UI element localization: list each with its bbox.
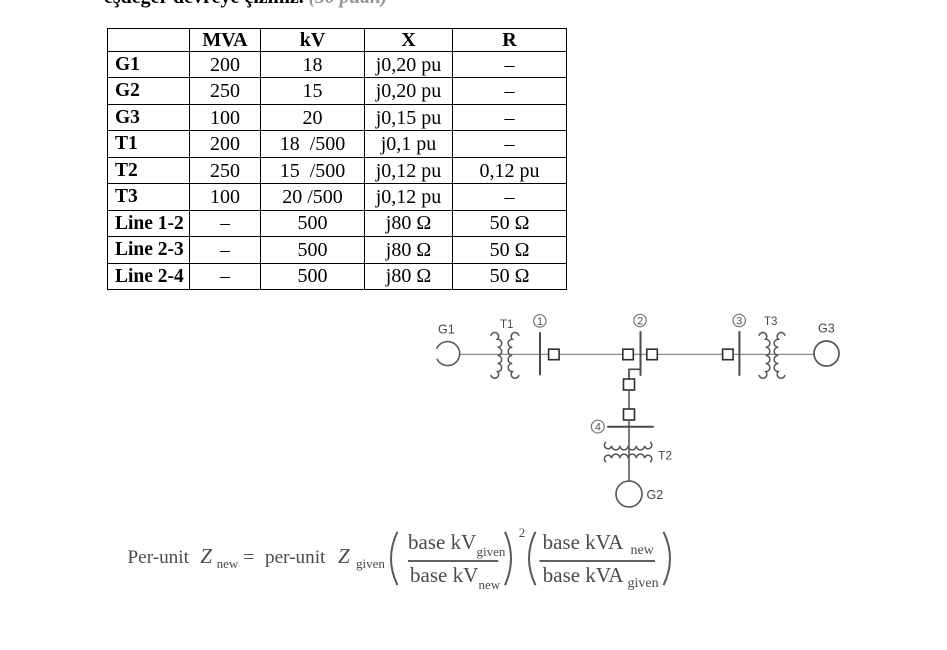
fraction 1 denominator bbox=[410, 565, 478, 586]
wire jog from bus2 down bbox=[629, 369, 641, 379]
node 3 circled bbox=[733, 314, 745, 326]
transformer T2 top winding bbox=[604, 442, 651, 450]
node 4 circled bbox=[591, 420, 604, 433]
equals bbox=[243, 548, 254, 567]
bus 4 bbox=[608, 426, 653, 428]
svg-text:4: 4 bbox=[595, 422, 601, 434]
breaker square bus2-left bbox=[623, 349, 634, 360]
left paren 2 bbox=[529, 532, 536, 585]
Z new bbox=[200, 546, 212, 567]
wire to bus 4 and into T2 bbox=[628, 420, 630, 481]
right paren 2 bbox=[664, 532, 671, 585]
right paren 1 bbox=[505, 532, 511, 585]
node 1 circled bbox=[534, 315, 546, 327]
bus 1 bbox=[539, 333, 541, 375]
breaker square branch-lower bbox=[624, 409, 635, 420]
breaker square bus3-left bbox=[723, 349, 734, 360]
cut-off title line bbox=[104, 0, 387, 9]
fraction 2 denominator bbox=[543, 565, 624, 586]
node 2 circled bbox=[634, 314, 646, 326]
data table bbox=[107, 28, 567, 290]
svg-text:T2: T2 bbox=[658, 449, 672, 463]
transformer T1 left winding bbox=[491, 333, 502, 379]
transformer T2 bottom winding bbox=[604, 454, 651, 462]
generator G3 bbox=[814, 341, 839, 366]
svg-text:G2: G2 bbox=[647, 488, 664, 502]
left paren 1 bbox=[391, 532, 398, 585]
fraction bar 1 bbox=[408, 560, 498, 562]
svg-text:1: 1 bbox=[537, 316, 543, 328]
exponent 2 bbox=[519, 526, 526, 539]
Z given bbox=[338, 546, 350, 567]
svg-text:T3: T3 bbox=[764, 316, 777, 328]
generator G2 bbox=[616, 481, 642, 507]
one-line power system diagram bbox=[420, 300, 880, 515]
bus 3 bbox=[738, 332, 740, 375]
generator G1 bbox=[437, 342, 460, 366]
svg-text:2: 2 bbox=[637, 316, 643, 328]
fraction 1 numerator bbox=[408, 532, 476, 553]
transformer T3 right winding bbox=[774, 333, 785, 379]
svg-text:G1: G1 bbox=[438, 322, 455, 336]
bus 2 bbox=[640, 332, 642, 375]
fraction 2 numerator bbox=[543, 532, 624, 553]
word per-unit bbox=[265, 548, 325, 567]
wire between branch breakers bbox=[628, 390, 630, 409]
transformer T1 right winding bbox=[508, 333, 519, 379]
transformer T3 left winding bbox=[759, 333, 770, 379]
svg-text:3: 3 bbox=[736, 316, 742, 328]
word Per-unit bbox=[128, 548, 189, 567]
svg-text:G3: G3 bbox=[818, 321, 835, 335]
main horizontal wire bbox=[460, 353, 814, 355]
svg-text:T1: T1 bbox=[500, 319, 513, 331]
fraction bar 2 bbox=[539, 560, 655, 562]
breaker square bus2-right bbox=[647, 349, 658, 360]
breaker square bus1-right bbox=[549, 349, 560, 360]
breaker square branch-upper bbox=[624, 379, 635, 390]
